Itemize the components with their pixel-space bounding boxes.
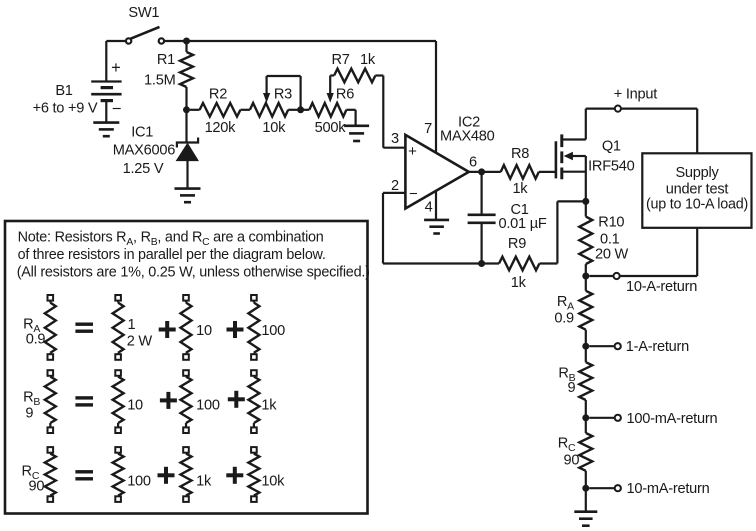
- node 1-A-return junction: [582, 343, 589, 350]
- svg-text:RC: RC: [558, 435, 576, 454]
- svg-text:IC1: IC1: [131, 125, 153, 141]
- svg-text:Note: Resistors RA, RB, and RC: Note: Resistors RA, RB, and RC are a com…: [18, 230, 324, 249]
- svg-text:10: 10: [196, 323, 212, 339]
- node output/C1 junction: [478, 168, 485, 175]
- svg-text:MAX6006: MAX6006: [113, 143, 175, 159]
- svg-text:500k: 500k: [315, 120, 347, 136]
- svg-text:Q1: Q1: [602, 139, 621, 155]
- resistor note 1 2W: [115, 295, 121, 301]
- svg-text:10k: 10k: [261, 474, 285, 490]
- node 10-mA-return junction: [582, 485, 589, 492]
- node R3/R6 junction: [297, 106, 304, 113]
- wire R9 to source node: [539, 262, 557, 264]
- wire top rail: [165, 40, 436, 42]
- wire output pin6: [469, 171, 501, 173]
- svg-text:6: 6: [469, 155, 477, 171]
- svg-text:RA: RA: [557, 294, 574, 313]
- switch SW1: [126, 38, 131, 43]
- capacitor C1: [481, 172, 483, 215]
- potentiometer R6: [309, 103, 346, 117]
- resistor RA note symbol: [48, 295, 54, 301]
- node R1/R2/IC1 junction: [183, 106, 190, 113]
- resistor R2: [190, 109, 200, 111]
- svg-text:+6 to +9 V: +6 to +9 V: [33, 101, 98, 117]
- resistor RB note symbol: [48, 370, 54, 376]
- zener diode IC1 MAX6006: [185, 110, 187, 143]
- svg-text:3: 3: [391, 131, 399, 147]
- node C1/R9/feedback junction: [478, 260, 485, 267]
- note box: [5, 221, 368, 514]
- svg-text:10-mA-return: 10-mA-return: [627, 481, 710, 497]
- svg-text:100: 100: [196, 397, 220, 413]
- svg-text:100: 100: [127, 474, 151, 490]
- wire R7 to pin3: [382, 76, 384, 148]
- ground ladder bottom: [585, 488, 587, 512]
- svg-text:+ Input: + Input: [614, 87, 657, 103]
- resistor note 1k (row B): [251, 370, 257, 376]
- ground R6: [355, 110, 357, 126]
- resistor note 10 (row B): [115, 370, 121, 376]
- node Q1 source junction: [582, 198, 589, 205]
- svg-text:−: −: [409, 186, 418, 203]
- resistor R8: [501, 165, 539, 179]
- svg-text:of three resistors in parallel: of three resistors in parallel per the d…: [18, 247, 326, 263]
- svg-text:1k: 1k: [360, 52, 376, 68]
- node 100-mA-return junction: [582, 414, 589, 421]
- svg-text:(All resistors are 1%, 0.25 W,: (All resistors are 1%, 0.25 W, unless ot…: [17, 265, 370, 281]
- svg-text:(up to 10-A load): (up to 10-A load): [646, 197, 748, 213]
- svg-text:20 W: 20 W: [595, 247, 629, 263]
- svg-text:90: 90: [28, 479, 44, 495]
- svg-text:B1: B1: [55, 83, 72, 99]
- wiper R6 (to R7): [329, 76, 331, 96]
- resistor note 1k (row C): [183, 447, 189, 453]
- svg-text:SW1: SW1: [128, 5, 159, 21]
- svg-text:1.5M: 1.5M: [144, 72, 175, 88]
- node switch/R1 junction: [183, 38, 190, 45]
- svg-text:IRF540: IRF540: [588, 158, 634, 174]
- svg-text:0.1: 0.1: [600, 231, 620, 247]
- svg-text:−: −: [112, 100, 121, 118]
- resistor note 100 (row A): [251, 295, 257, 301]
- svg-text:R7: R7: [332, 52, 350, 68]
- svg-text:MAX480: MAX480: [440, 129, 495, 145]
- node 10-A-return junction: [582, 273, 589, 280]
- svg-text:1k: 1k: [196, 474, 212, 490]
- svg-text:4: 4: [425, 199, 433, 215]
- resistor RC: [585, 418, 587, 433]
- battery B1: [91, 80, 121, 82]
- op-amp IC2 MAX480: [405, 135, 468, 209]
- resistor RC note symbol: [48, 447, 54, 453]
- resistor R10: [585, 201, 587, 216]
- wire pin4 + ground: [435, 191, 437, 220]
- svg-text:R10: R10: [598, 214, 624, 230]
- svg-text:1k: 1k: [511, 275, 527, 291]
- supply under test box: [642, 153, 751, 228]
- wire pin2: [383, 192, 405, 194]
- svg-text:100: 100: [261, 323, 285, 339]
- ground IC1: [175, 187, 201, 190]
- svg-text:R6: R6: [336, 86, 354, 102]
- svg-text:R9: R9: [508, 236, 526, 252]
- svg-text:Supply: Supply: [675, 165, 719, 181]
- resistor R9: [482, 262, 499, 264]
- svg-text:0.9: 0.9: [26, 332, 46, 348]
- svg-text:1: 1: [128, 317, 136, 333]
- transistor Q1 IRF540: [555, 141, 558, 178]
- svg-text:100-mA-return: 100-mA-return: [627, 411, 718, 427]
- wire feedback loop: [383, 262, 482, 264]
- svg-text:R1: R1: [157, 52, 175, 68]
- resistor note 10k (row C): [251, 447, 257, 453]
- svg-text:1-A-return: 1-A-return: [626, 339, 689, 355]
- wire supply box to 10-A-return: [696, 228, 698, 276]
- resistor RB: [585, 346, 587, 362]
- wire battery-to-switch: [106, 40, 125, 42]
- resistor note 100 (row B): [183, 370, 189, 376]
- ground battery: [93, 121, 119, 124]
- svg-text:0.01 µF: 0.01 µF: [498, 216, 546, 232]
- wire pin7 riser: [435, 41, 437, 153]
- svg-text:R3: R3: [274, 86, 292, 102]
- resistor R1: [185, 41, 187, 52]
- svg-text:120k: 120k: [205, 120, 237, 136]
- svg-text:2: 2: [391, 178, 399, 194]
- resistor RA: [585, 276, 587, 291]
- svg-text:0.9: 0.9: [554, 311, 574, 327]
- potentiometer R3: [250, 103, 288, 117]
- svg-text:R2: R2: [209, 86, 227, 102]
- svg-text:1k: 1k: [512, 181, 528, 197]
- svg-text:10-A-return: 10-A-return: [626, 279, 697, 295]
- svg-text:90: 90: [563, 452, 579, 468]
- svg-text:under test: under test: [666, 182, 729, 198]
- svg-text:2 W: 2 W: [127, 333, 153, 349]
- svg-text:10k: 10k: [262, 120, 286, 136]
- wiper R3: [266, 76, 268, 95]
- svg-text:10: 10: [127, 397, 143, 413]
- resistor R7 1k: [334, 69, 375, 83]
- svg-text:7: 7: [424, 121, 432, 137]
- svg-text:9: 9: [25, 406, 33, 422]
- wire R3 junction to R6: [301, 109, 310, 111]
- svg-text:R8: R8: [511, 146, 529, 162]
- svg-text:9: 9: [568, 380, 576, 396]
- resistor note 100 (row C): [115, 447, 121, 453]
- resistor note 10 (row A): [183, 295, 189, 301]
- svg-text:1k: 1k: [261, 397, 277, 413]
- svg-text:+: +: [111, 59, 120, 77]
- svg-text:1.25 V: 1.25 V: [123, 161, 164, 177]
- svg-text:+: +: [408, 143, 417, 160]
